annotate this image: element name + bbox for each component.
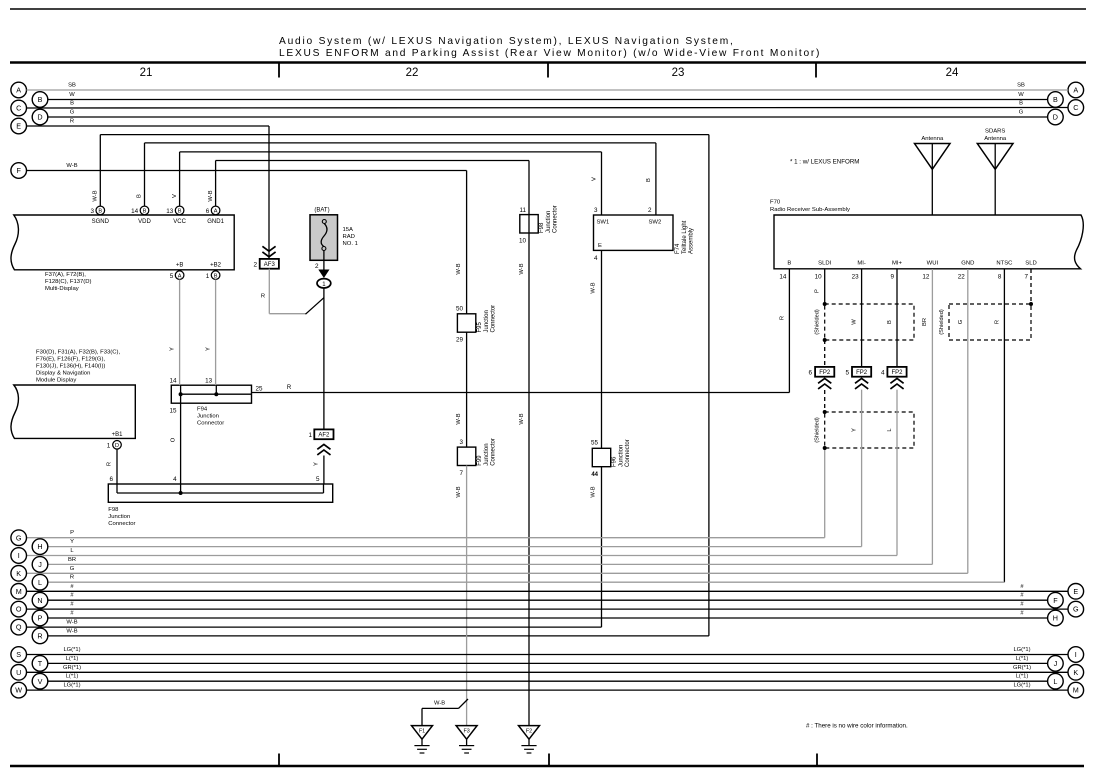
- svg-text:Telltale Light: Telltale Light: [682, 220, 688, 254]
- svg-text:Junction: Junction: [618, 445, 624, 467]
- svg-text:BR: BR: [68, 557, 76, 563]
- top section scale bar: [10, 63, 1086, 78]
- svg-text:LG(*1): LG(*1): [1013, 647, 1030, 653]
- node I left bottom: [11, 548, 27, 564]
- svg-text:Module Display: Module Display: [36, 378, 76, 384]
- node F right bottom: [1048, 592, 1064, 608]
- shield box right: [939, 304, 1031, 340]
- junction connector F95: [456, 305, 497, 344]
- svg-text:FP2: FP2: [856, 370, 868, 376]
- svg-text:F94: F94: [197, 407, 208, 413]
- wire W LG: [27, 683, 1069, 691]
- wire L R label: [70, 575, 74, 581]
- ground F2: [519, 726, 540, 753]
- ground F1: [412, 699, 469, 753]
- note w LEXUS ENFORM: [790, 159, 859, 166]
- svg-text:R: R: [37, 632, 42, 641]
- svg-text:3: 3: [594, 207, 598, 214]
- wire +B Y to F94 pin14: [170, 280, 180, 386]
- svg-text:LG(*1): LG(*1): [63, 683, 80, 689]
- wire P hash: [48, 611, 1048, 619]
- svg-text:R: R: [261, 294, 265, 300]
- svg-text:I: I: [1075, 650, 1077, 659]
- svg-text:* 1 : w/ LEXUS ENFORM: * 1 : w/ LEXUS ENFORM: [790, 159, 859, 166]
- svg-text:Antenna: Antenna: [921, 136, 944, 142]
- node A left: [11, 82, 27, 98]
- svg-text:W: W: [1018, 92, 1024, 98]
- svg-text:F98: F98: [108, 507, 119, 513]
- svg-text:B: B: [1053, 95, 1058, 104]
- svg-text:Connector: Connector: [491, 438, 497, 466]
- svg-text:23: 23: [672, 67, 685, 79]
- node N left bottom: [32, 592, 48, 608]
- svg-text:C: C: [1073, 103, 1078, 112]
- node L left bottom: [32, 574, 48, 590]
- fuse pin 2 and node 1: [315, 251, 331, 288]
- svg-text:FP2: FP2: [819, 370, 831, 376]
- svg-text:SB: SB: [1017, 83, 1025, 89]
- svg-text:W-B: W-B: [456, 486, 462, 497]
- node E left: [11, 118, 27, 134]
- svg-text:25: 25: [256, 386, 264, 393]
- svg-text:4: 4: [881, 369, 885, 376]
- svg-text:2: 2: [315, 263, 319, 270]
- svg-text:L(*1): L(*1): [66, 656, 79, 662]
- node O left bottom: [11, 601, 27, 617]
- svg-text:11: 11: [519, 207, 526, 214]
- node D right: [1048, 109, 1064, 125]
- wire GND1 W-B: [208, 161, 529, 726]
- svg-text:F: F: [17, 166, 22, 175]
- shield box lower: [815, 412, 914, 448]
- connector AF2: [308, 429, 333, 455]
- svg-text:1: 1: [107, 443, 111, 450]
- svg-text:L(*1): L(*1): [1016, 656, 1029, 662]
- svg-text:13: 13: [205, 378, 213, 385]
- section number 21: [140, 67, 153, 79]
- svg-text:4: 4: [594, 255, 598, 262]
- wire F96 to node Q W-B: [27, 467, 602, 627]
- component Multi-Display box: [11, 215, 234, 270]
- svg-text:O: O: [16, 605, 22, 614]
- svg-text:22: 22: [406, 67, 419, 79]
- node G right bottom: [1068, 601, 1084, 617]
- svg-text:B: B: [646, 178, 652, 182]
- ground F3: [456, 726, 477, 753]
- svg-text:B: B: [98, 209, 102, 215]
- svg-text:+B: +B: [176, 262, 184, 268]
- svg-text:6: 6: [808, 369, 812, 376]
- svg-text:2: 2: [253, 261, 257, 268]
- svg-text:F74: F74: [675, 243, 681, 254]
- node M right bottom: [1068, 682, 1084, 698]
- svg-text:# : There is no wire color inf: # : There is no wire color information.: [806, 723, 908, 730]
- wire H Y label: [70, 539, 74, 545]
- wire F W-B: [27, 163, 467, 171]
- svg-text:Junction: Junction: [484, 310, 490, 332]
- svg-text:F2: F2: [526, 729, 532, 735]
- shield box upper: [815, 304, 914, 340]
- svg-text:+B2: +B2: [210, 262, 222, 268]
- svg-text:GND1: GND1: [207, 219, 224, 225]
- fuse 15A RAD NO.1: [310, 208, 358, 261]
- svg-text:U: U: [16, 668, 21, 677]
- wire M hash: [27, 584, 1069, 592]
- svg-text:Multi-Display: Multi-Display: [45, 286, 79, 292]
- node C right: [1068, 100, 1084, 116]
- svg-text:R: R: [70, 119, 74, 125]
- svg-text:(Shielded): (Shielded): [939, 309, 945, 335]
- svg-text:W-B: W-B: [591, 282, 597, 293]
- wire J BR label: [68, 557, 76, 563]
- node S left bottom: [11, 647, 27, 663]
- svg-text:J: J: [38, 560, 42, 569]
- svg-text:N: N: [37, 596, 42, 605]
- svg-text:44: 44: [591, 472, 598, 478]
- connector FP2 no6: [808, 367, 834, 389]
- svg-text:29: 29: [456, 337, 464, 344]
- junction connector F99: [457, 438, 496, 477]
- svg-text:H: H: [37, 542, 42, 551]
- svg-text:MI+: MI+: [892, 260, 903, 266]
- svg-text:Connector: Connector: [197, 421, 224, 427]
- pin 5 +B: [170, 262, 184, 280]
- wire AF2 to F98 pin5 Y: [314, 456, 324, 485]
- svg-text:2: 2: [648, 207, 652, 214]
- svg-text:W-B: W-B: [208, 190, 214, 201]
- svg-text:1: 1: [308, 432, 312, 439]
- connector AF3: [253, 246, 278, 268]
- svg-text:R: R: [70, 575, 74, 581]
- svg-text:6: 6: [109, 476, 113, 483]
- svg-text:SB: SB: [68, 83, 76, 89]
- svg-text:5: 5: [316, 476, 320, 483]
- svg-text:GND: GND: [961, 260, 974, 266]
- svg-text:BR: BR: [922, 318, 928, 326]
- svg-text:B: B: [1019, 101, 1023, 107]
- node I right bottom: [1068, 647, 1084, 663]
- section number 23: [672, 67, 685, 79]
- svg-text:(Shielded): (Shielded): [815, 417, 821, 443]
- wire V L: [48, 674, 1048, 682]
- svg-text:M: M: [16, 587, 22, 596]
- wire I L label: [70, 548, 74, 554]
- bottom section scale bar: [10, 754, 1084, 767]
- svg-text:F130(J), F136(H), F140(I)): F130(J), F136(H), F140(I)): [36, 364, 105, 370]
- node T left bottom: [32, 656, 48, 672]
- svg-text:G: G: [1019, 110, 1024, 116]
- SDARS antenna: [977, 129, 1013, 216]
- svg-text:10: 10: [519, 238, 527, 245]
- svg-text:24: 24: [946, 67, 959, 79]
- svg-text:AF3: AF3: [264, 262, 276, 268]
- svg-text:Junction: Junction: [108, 514, 130, 520]
- svg-text:Y: Y: [852, 428, 858, 432]
- svg-text:F96: F96: [612, 456, 618, 467]
- svg-text:D: D: [37, 113, 42, 122]
- svg-text:O: O: [171, 437, 177, 442]
- svg-text:S: S: [16, 650, 21, 659]
- svg-text:A: A: [16, 86, 21, 95]
- svg-text:F30(D), F31(A), F32(B), F33(C): F30(D), F31(A), F32(B), F33(C),: [36, 350, 120, 356]
- svg-text:F95: F95: [477, 321, 483, 332]
- wire G P label: [70, 530, 74, 536]
- svg-text:P: P: [70, 530, 74, 536]
- svg-text:E: E: [16, 122, 21, 131]
- pin 1 +B2: [206, 262, 222, 280]
- pin 13 VCC: [166, 206, 186, 225]
- svg-text:D: D: [1053, 113, 1058, 122]
- junction connector F94: [169, 378, 263, 427]
- node B left: [32, 92, 48, 108]
- svg-text:3: 3: [459, 439, 463, 446]
- svg-text:NO. 1: NO. 1: [343, 241, 358, 247]
- wire F94 pin25 R to radio pin14: [252, 269, 790, 393]
- node K right bottom: [1068, 665, 1084, 681]
- svg-text:Connector: Connector: [553, 205, 559, 233]
- wire SLDI P with shield: [27, 269, 827, 538]
- wire SLD shield drain: [1029, 269, 1033, 306]
- svg-text:GR(*1): GR(*1): [1013, 665, 1031, 671]
- svg-text:B: B: [38, 95, 43, 104]
- svg-text:G: G: [70, 110, 75, 116]
- svg-text:V: V: [38, 677, 43, 686]
- svg-text:W: W: [69, 92, 75, 98]
- svg-text:H: H: [1053, 614, 1058, 623]
- svg-text:W-B: W-B: [519, 413, 525, 424]
- svg-text:B: B: [143, 209, 147, 215]
- section number 24: [946, 67, 959, 79]
- svg-text:B: B: [787, 260, 791, 266]
- node L right bottom: [1048, 673, 1064, 689]
- svg-text:22: 22: [958, 274, 966, 281]
- svg-text:3: 3: [90, 208, 94, 215]
- svg-text:W-B: W-B: [66, 163, 77, 169]
- svg-text:G: G: [1073, 605, 1079, 614]
- svg-text:W-B: W-B: [456, 263, 462, 274]
- svg-text:P: P: [815, 289, 821, 293]
- svg-text:6: 6: [206, 208, 210, 215]
- svg-text:R: R: [107, 462, 113, 466]
- svg-text:SGND: SGND: [92, 219, 110, 225]
- svg-text:B: B: [70, 101, 74, 107]
- svg-text:A: A: [178, 273, 182, 279]
- node J left bottom: [32, 557, 48, 573]
- svg-text:21: 21: [140, 67, 153, 79]
- node A right: [1068, 82, 1084, 98]
- node H right bottom: [1048, 610, 1064, 626]
- svg-text:R: R: [994, 320, 1000, 324]
- svg-text:B: B: [887, 320, 893, 324]
- pin 3 SGND: [90, 206, 109, 225]
- connector FP2 no4: [881, 367, 907, 389]
- node K left bottom: [11, 566, 27, 582]
- wire VCC V: [172, 152, 602, 215]
- svg-text:W-B: W-B: [456, 413, 462, 424]
- svg-text:E: E: [1073, 587, 1078, 596]
- svg-text:A: A: [214, 209, 218, 215]
- svg-text:4: 4: [173, 476, 177, 483]
- svg-text:R: R: [287, 385, 292, 391]
- svg-text:C: C: [16, 104, 21, 113]
- pin 14 VDD: [131, 206, 151, 225]
- pin 6 GND1: [206, 206, 225, 225]
- svg-text:Connector: Connector: [108, 521, 135, 527]
- svg-text:Assembly: Assembly: [689, 228, 695, 254]
- svg-text:SLD: SLD: [1025, 260, 1036, 266]
- svg-text:B: B: [137, 194, 143, 198]
- wire T L: [48, 656, 1048, 664]
- node V left bottom: [32, 673, 48, 689]
- wire F99 to ground F3 W-B: [456, 466, 467, 726]
- svg-text:G: G: [16, 533, 22, 542]
- wire N hash: [48, 593, 1048, 601]
- junction connector F98 (F circuit): [519, 205, 559, 244]
- pin 1 +B1: [107, 432, 123, 450]
- component Display and Navigation Module box: [11, 385, 135, 438]
- component F70 Radio Receiver Sub-Assembly: [770, 200, 1083, 269]
- svg-text:AF2: AF2: [318, 433, 330, 439]
- svg-text:F1: F1: [419, 729, 425, 735]
- svg-text:Junction: Junction: [484, 443, 490, 465]
- svg-text:Antenna: Antenna: [984, 136, 1007, 142]
- wire MI+ B/L: [27, 269, 898, 556]
- radio pin numbers: [779, 274, 1028, 281]
- wire +B2 Y to F94 pin13: [206, 280, 216, 386]
- svg-text:Junction: Junction: [546, 211, 552, 233]
- svg-text:NTSC: NTSC: [996, 260, 1013, 266]
- svg-text:MI-: MI-: [857, 260, 866, 266]
- svg-text:7: 7: [459, 470, 463, 477]
- wire MI- W/Y: [48, 269, 862, 547]
- svg-text:L(*1): L(*1): [1016, 674, 1029, 680]
- node M left bottom: [11, 584, 27, 600]
- title text: [279, 36, 821, 59]
- svg-text:V: V: [172, 194, 178, 198]
- svg-text:W-B: W-B: [93, 190, 99, 201]
- svg-text:1: 1: [206, 273, 210, 280]
- node F left: [11, 163, 27, 179]
- svg-text:12: 12: [922, 274, 930, 281]
- wire +B1 R to F98 pin6: [107, 449, 118, 484]
- wire Q W-B label: [66, 620, 77, 626]
- svg-text:L: L: [1053, 677, 1057, 686]
- svg-text:L: L: [38, 578, 42, 587]
- node C left: [11, 100, 27, 116]
- svg-text:W-B: W-B: [519, 263, 525, 274]
- svg-text:Audio System (w/ LEXUS Navigat: Audio System (w/ LEXUS Navigation System…: [279, 36, 735, 47]
- node H left bottom: [32, 539, 48, 555]
- svg-text:F128(C), F137(D): F128(C), F137(D): [45, 279, 92, 285]
- svg-text:10: 10: [815, 274, 823, 281]
- node R left bottom: [32, 628, 48, 644]
- wire C-C B: [27, 101, 1069, 109]
- svg-text:RAD: RAD: [343, 234, 355, 240]
- svg-text:LEXUS ENFORM and Parking Assis: LEXUS ENFORM and Parking Assist (Rear Vi…: [279, 48, 821, 59]
- svg-text:14: 14: [169, 378, 177, 385]
- wire F W-B vertical: [456, 171, 467, 315]
- svg-text:5: 5: [845, 369, 849, 376]
- svg-text:Y: Y: [170, 347, 176, 351]
- svg-text:15: 15: [169, 408, 177, 415]
- svg-text:F3: F3: [463, 729, 469, 735]
- svg-text:+B1: +B1: [112, 432, 124, 438]
- wire U GR: [27, 665, 1069, 673]
- wire O hash: [27, 602, 1069, 610]
- page top border line: [10, 8, 1086, 10]
- svg-text:Y: Y: [206, 347, 212, 351]
- svg-text:Y: Y: [70, 539, 74, 545]
- svg-text:VCC: VCC: [173, 219, 186, 225]
- svg-text:I: I: [18, 551, 20, 560]
- wire VDD B: [137, 143, 656, 215]
- svg-text:15A: 15A: [343, 227, 354, 233]
- svg-text:G: G: [958, 319, 964, 324]
- svg-text:D: D: [115, 443, 119, 449]
- node P left bottom: [32, 610, 48, 626]
- node Q left bottom: [11, 619, 27, 635]
- svg-text:B: B: [214, 273, 218, 279]
- component F74 Telltale Light Assembly: [594, 207, 695, 262]
- svg-text:LG(*1): LG(*1): [1013, 683, 1030, 689]
- svg-text:G: G: [70, 566, 75, 572]
- svg-text:Display & Navigation: Display & Navigation: [36, 371, 90, 377]
- svg-text:SDARS: SDARS: [985, 129, 1005, 135]
- wire K G label: [70, 566, 75, 572]
- svg-text:F37(A), F72(B),: F37(A), F72(B),: [45, 272, 86, 278]
- wire F95 to F99 W-B: [456, 332, 467, 447]
- svg-text:VDD: VDD: [138, 219, 151, 225]
- svg-text:K: K: [1073, 668, 1078, 677]
- connector FP2 no5: [845, 367, 871, 389]
- node D left: [32, 109, 48, 125]
- svg-text:7: 7: [1024, 274, 1028, 281]
- svg-text:13: 13: [166, 208, 174, 215]
- svg-text:LG(*1): LG(*1): [63, 647, 80, 653]
- svg-text:E: E: [598, 243, 602, 249]
- node J right bottom: [1048, 656, 1064, 672]
- svg-text:23: 23: [852, 274, 860, 281]
- svg-text:55: 55: [591, 440, 599, 447]
- node W left bottom: [11, 682, 27, 698]
- svg-text:50: 50: [456, 306, 464, 313]
- svg-text:(BAT): (BAT): [314, 208, 329, 214]
- svg-text:14: 14: [131, 208, 139, 215]
- svg-text:K: K: [16, 569, 21, 578]
- node E right bottom: [1068, 584, 1084, 600]
- node B right: [1048, 92, 1064, 108]
- svg-text:FP2: FP2: [891, 370, 903, 376]
- wire AF3 to battery node R: [261, 269, 324, 315]
- svg-text:Q: Q: [16, 623, 22, 632]
- antenna: [915, 136, 951, 215]
- wire SGND W-B loop: [48, 135, 709, 636]
- wire R W-B label: [66, 628, 77, 634]
- svg-text:T: T: [38, 659, 43, 668]
- wire B-B W: [48, 92, 1048, 100]
- node U left bottom: [11, 665, 27, 681]
- junction connector F98 bus: [108, 476, 332, 527]
- svg-text:V: V: [592, 177, 598, 181]
- svg-text:F99: F99: [477, 455, 483, 466]
- wire D-D G: [48, 110, 1048, 118]
- svg-text:J: J: [1054, 659, 1058, 668]
- svg-text:B: B: [178, 209, 182, 215]
- svg-text:(Shielded): (Shielded): [815, 309, 821, 335]
- svg-text:W-B: W-B: [591, 486, 597, 497]
- section number 22: [406, 67, 419, 79]
- svg-text:W: W: [15, 686, 22, 695]
